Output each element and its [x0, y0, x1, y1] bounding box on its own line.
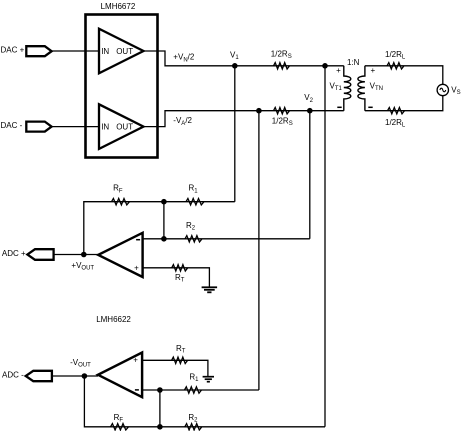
resistor 1/2RL top	[387, 63, 404, 69]
svg-text:V2: V2	[304, 93, 313, 104]
polarity - primary	[337, 106, 341, 108]
resistor R2 of U2A	[185, 236, 202, 242]
svg-text:ADC -: ADC -	[2, 371, 24, 380]
U2B inverting mark	[135, 389, 139, 391]
wire U2B noninverting input to RT and ground	[142, 360, 208, 376]
connector DAC+	[26, 46, 51, 56]
connector ADC-	[26, 371, 52, 381]
op-amp U1B buffer	[99, 104, 144, 149]
svg-text:RT: RT	[176, 344, 186, 355]
svg-text:+VOUT: +VOUT	[71, 261, 94, 272]
svg-text:OUT: OUT	[116, 47, 133, 56]
junction inverting input U2B	[157, 387, 163, 393]
transformer T1 secondary winding	[358, 66, 365, 111]
svg-text:VS: VS	[451, 86, 460, 97]
svg-text:V1: V1	[230, 50, 239, 61]
svg-text:1/2RL: 1/2RL	[385, 118, 406, 129]
resistor R2 of U2B	[185, 424, 202, 430]
op-amp U1A buffer	[99, 29, 144, 74]
svg-text:RF: RF	[114, 413, 124, 424]
op-amp U2A	[98, 233, 142, 277]
resistor RF of U2A	[112, 199, 130, 205]
svg-text:+VN/2: +VN/2	[173, 53, 195, 64]
svg-text:R1: R1	[189, 184, 199, 195]
resistor RT of U2B	[172, 357, 188, 363]
junction on V1 row	[322, 63, 328, 69]
wire DAC+ input to buffer A	[52, 50, 99, 52]
svg-text:RF: RF	[113, 184, 123, 195]
resistor R1 of U2B	[185, 387, 202, 393]
wire U2A feedback row RF R1	[84, 202, 235, 255]
ground of U2B termination	[203, 377, 214, 382]
wire load bottom to secondary	[365, 96, 443, 111]
source VS	[437, 84, 448, 95]
junction inverting input U2A	[161, 236, 167, 242]
svg-text:1:N: 1:N	[347, 58, 360, 67]
svg-text:-VOUT: -VOUT	[70, 358, 91, 369]
resistor 1/2RS bottom	[274, 108, 290, 114]
wire node at V1 row down to R2 row of U2B	[324, 66, 326, 427]
node -VOUT	[82, 373, 88, 379]
wire buffer A output to V1 row	[144, 51, 344, 66]
wire U2B inverting input R1 row	[142, 389, 259, 391]
wire buffer B output to V2 row	[144, 111, 344, 127]
wire node at V2 row down to R1 row of U2B	[258, 111, 260, 390]
op-amp U1 LMH6672 package outline	[86, 15, 158, 158]
svg-text:LMH6672: LMH6672	[101, 2, 136, 11]
op-amp U2B	[98, 353, 142, 398]
connector ADC+	[27, 249, 53, 260]
node V2	[307, 108, 313, 114]
resistor 1/2RL bottom	[388, 108, 405, 114]
svg-text:-VA/2: -VA/2	[173, 116, 192, 127]
node V1	[232, 63, 238, 69]
svg-text:1/2RS: 1/2RS	[272, 116, 293, 127]
resistor 1/2RS top	[274, 63, 290, 69]
wire U2A noninverting input to RT and ground	[143, 268, 210, 288]
wire U2B feedback row RF R2	[84, 376, 325, 427]
junction RF/R2 of U2B	[157, 424, 163, 430]
resistor R1 of U2A	[186, 199, 204, 205]
resistor RT of U2A	[172, 265, 188, 271]
svg-text:+: +	[336, 66, 341, 75]
transformer T1 primary winding	[344, 66, 351, 111]
wire node V1 down to R1 row of U2A	[234, 66, 236, 202]
U2A inverting mark	[136, 239, 140, 241]
wire ADC+ connector to U2A output	[54, 254, 99, 256]
svg-text:1/2RS: 1/2RS	[271, 50, 292, 61]
wire node V2 down to R2 row of U2A	[309, 111, 311, 239]
ground of U2A termination	[202, 287, 218, 292]
svg-text:DAC +: DAC +	[1, 46, 25, 55]
svg-text:R2: R2	[186, 221, 196, 232]
svg-text:+: +	[371, 66, 376, 75]
svg-text:IN: IN	[101, 47, 109, 56]
wire secondary top to load	[365, 66, 443, 85]
svg-text:VT1: VT1	[330, 81, 343, 92]
junction RF/R1	[161, 199, 167, 205]
connector DAC-	[26, 122, 51, 132]
svg-text:IN: IN	[101, 122, 109, 131]
svg-text:OUT: OUT	[116, 122, 133, 131]
svg-text:R1: R1	[189, 373, 199, 384]
wire DAC- input to buffer B	[52, 126, 99, 128]
wire U2A inverting input R2 row	[143, 238, 310, 240]
resistor RF of U2B	[111, 424, 129, 430]
svg-text:RT: RT	[175, 273, 185, 284]
svg-text:VTN: VTN	[370, 81, 383, 92]
svg-text:DAC -: DAC -	[1, 121, 23, 130]
sine mark in VS	[440, 88, 446, 92]
svg-text:LMH6622: LMH6622	[96, 315, 131, 324]
polarity - secondary	[368, 106, 372, 108]
svg-text:+: +	[134, 264, 139, 273]
node +VOUT	[81, 252, 87, 258]
svg-text:ADC +: ADC +	[2, 249, 26, 258]
svg-text:R2: R2	[188, 413, 198, 424]
wire ADC- connector to U2B output	[52, 375, 98, 377]
junction on V2 row	[256, 108, 262, 114]
wire RF/R1 junction down to inverting input	[163, 202, 165, 239]
svg-text:+: +	[133, 355, 138, 364]
svg-text:1/2RL: 1/2RL	[385, 50, 406, 61]
wire R1/RF junction of U2B down to feedback row	[159, 390, 161, 427]
